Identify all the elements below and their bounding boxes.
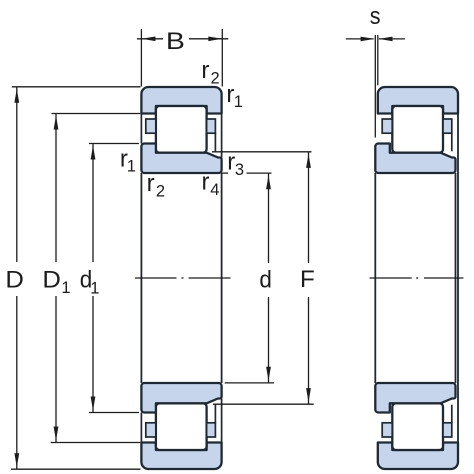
svg-text:1: 1 <box>127 158 136 176</box>
svg-text:1: 1 <box>90 280 99 298</box>
svg-text:1: 1 <box>61 279 70 297</box>
svg-text:B: B <box>166 28 185 55</box>
svg-text:r: r <box>147 170 155 197</box>
svg-text:d: d <box>259 267 272 294</box>
svg-text:s: s <box>370 3 381 30</box>
svg-text:r: r <box>201 57 209 84</box>
svg-text:3: 3 <box>235 161 244 179</box>
svg-text:r: r <box>202 168 210 195</box>
svg-text:1: 1 <box>234 93 243 111</box>
svg-text:4: 4 <box>210 181 219 199</box>
svg-text:2: 2 <box>156 183 165 201</box>
svg-text:F: F <box>300 266 315 293</box>
svg-text:D: D <box>5 266 24 293</box>
svg-text:D: D <box>42 266 61 293</box>
svg-text:2: 2 <box>211 70 220 88</box>
